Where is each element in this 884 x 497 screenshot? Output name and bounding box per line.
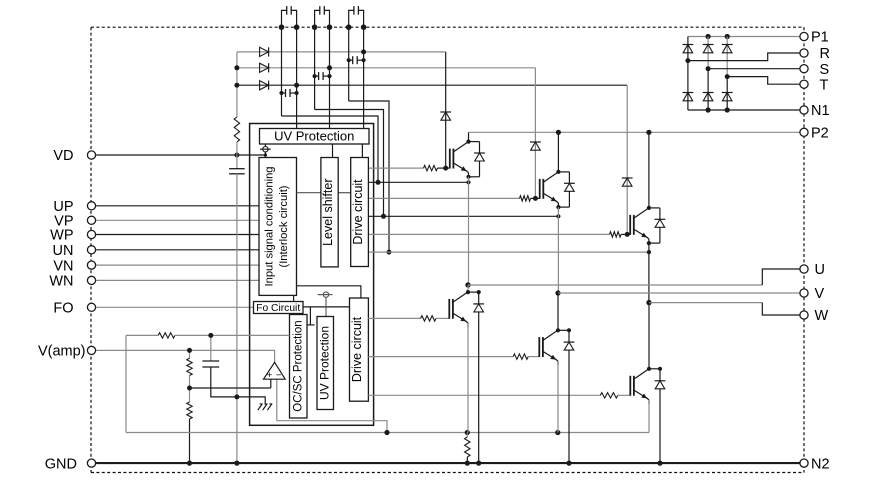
svg-text:UN: UN [53, 243, 74, 259]
svg-text:FO: FO [53, 301, 73, 317]
svg-text:Input signal conditioning: Input signal conditioning [263, 166, 275, 286]
svg-text:U: U [815, 262, 825, 278]
svg-text:W: W [815, 308, 829, 324]
svg-text:−: − [276, 370, 282, 381]
svg-text:T: T [820, 77, 829, 93]
svg-text:UV Protection: UV Protection [274, 129, 354, 144]
svg-text:OC/SC Protection: OC/SC Protection [293, 320, 305, 411]
svg-text:WP: WP [50, 228, 73, 244]
svg-text:S: S [820, 62, 830, 78]
svg-text:VD: VD [53, 148, 73, 164]
svg-text:+: + [267, 370, 273, 381]
svg-text:V: V [815, 286, 825, 302]
svg-text:GND: GND [45, 456, 77, 472]
svg-text:Drive circuit: Drive circuit [351, 179, 365, 245]
svg-text:P1: P1 [811, 30, 829, 46]
svg-text:Level shifter: Level shifter [321, 178, 335, 245]
svg-text:R: R [820, 46, 830, 62]
svg-text:(Interlock circuit): (Interlock circuit) [278, 185, 290, 267]
svg-text:WN: WN [49, 274, 73, 290]
svg-text:P2: P2 [811, 126, 829, 142]
svg-text:UV Protection: UV Protection [317, 326, 331, 400]
svg-text:VN: VN [53, 258, 73, 274]
svg-text:V(amp): V(amp) [38, 344, 86, 360]
svg-text:Fo Circuit: Fo Circuit [256, 303, 300, 314]
svg-text:Drive circuit: Drive circuit [350, 316, 364, 382]
svg-text:N2: N2 [811, 456, 830, 472]
svg-text:N1: N1 [811, 103, 830, 119]
